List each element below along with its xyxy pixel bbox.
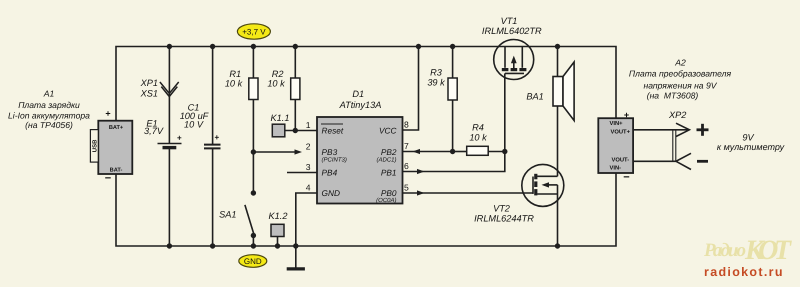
svg-text:PB4: PB4 [322,167,338,177]
wire: ground symbol drop [295,246,297,269]
node: pin2/R1 [251,149,256,154]
svg-text:10 V: 10 V [184,120,204,130]
svg-text:Радио: Радио [703,240,746,261]
wire: node down to pin 6 line [403,152,505,172]
svg-text:(ADC1): (ADC1) [376,156,396,163]
wire: bottom ground rail [116,173,616,246]
node: gnd/VT2 source [555,243,560,248]
speaker BA1 [526,62,574,121]
svg-text:PB3: PB3 [322,147,338,157]
transistor VT2 IRLML6244TR [474,164,564,223]
svg-text:3: 3 [306,162,311,172]
svg-text:D1: D1 [352,89,364,99]
svg-text:PB0: PB0 [381,188,397,198]
svg-text:напряжения на 9V: напряжения на 9V [643,80,717,90]
svg-text:+3,7 V: +3,7 V [242,28,266,37]
svg-text:GND: GND [322,188,340,198]
svg-text:4: 4 [306,183,311,193]
svg-text:XP2: XP2 [668,110,686,120]
svg-text:Плата зарядки: Плата зарядки [18,100,80,110]
block A1 charging board [90,109,132,185]
wire: IC pin 5 to VT2 gate [403,192,534,194]
svg-text:8: 8 [404,120,409,130]
svg-text:(PCINT3): (PCINT3) [322,156,347,163]
wire: R2 bottom to pin1 node [294,100,296,131]
svg-text:А1: А1 [43,89,55,99]
svg-text:+: + [624,110,629,120]
wire: IC pin 3 stub [287,172,317,174]
node: gnd/C1 [210,243,215,248]
resistor R3 [427,68,457,101]
node: gnd/E1 [167,243,172,248]
battery E1 [144,118,182,147]
svg-text:VCC: VCC [379,126,398,136]
svg-text:10 k: 10 k [225,79,243,89]
svg-text:(OC0A): (OC0A) [376,197,396,204]
watermark РадиоКОТ [703,235,793,279]
relay contact K1.1 [271,113,290,137]
relay contact K1.2 [269,211,288,237]
node: rail/R3 [450,44,455,49]
transistor VT1 IRLML6402TR [482,16,542,80]
node: rail/C1 [210,44,215,49]
wire: K1.1 to IC pin 1 [285,130,317,132]
wire: IC pin 7 to R3/R4 node [403,151,453,153]
svg-text:6: 6 [404,161,409,171]
node: rail/R2 [293,44,298,49]
node: R4/VT1 gate/pin6 [502,149,507,154]
node: rail/BA1 [555,44,560,49]
wire: C1 column upper [212,47,214,145]
wire: R1 node to IC pin 2 [253,151,296,153]
svg-text:7: 7 [404,141,409,151]
node: gnd/SA1 [251,243,256,248]
svg-text:GND: GND [244,257,262,266]
svg-text:IRLML6244TR: IRLML6244TR [474,214,534,224]
svg-text:10 k: 10 k [469,133,487,143]
wire: K1.2 to ground rail [277,237,279,247]
svg-text:SA1: SA1 [219,210,236,220]
resistor R4 [467,123,489,156]
svg-text:VOUT+: VOUT+ [611,129,631,136]
svg-text:BA1: BA1 [526,92,543,102]
svg-text:radiokot.ru: radiokot.ru [704,265,784,279]
wire: R4 right lead to node [488,151,505,153]
svg-text:K1.1: K1.1 [271,113,290,123]
arrow into pin 7 [413,149,421,154]
node: gnd/pin4 [293,243,298,248]
resistor R2 [267,69,300,99]
node: rail/E1 [167,44,172,49]
svg-text:VT1: VT1 [501,16,518,26]
svg-text:IRLML6402TR: IRLML6402TR [482,26,542,36]
node: rail/R1 [251,44,256,49]
svg-text:10 k: 10 k [267,79,285,89]
svg-text:к мультиметру: к мультиметру [717,142,785,152]
svg-text:K1.2: K1.2 [269,211,288,221]
svg-text:39 k: 39 k [427,78,445,88]
wire: VT2 source to ground rail [557,194,559,246]
svg-text:USB: USB [91,139,98,152]
svg-text:(на МТ3608): (на МТ3608) [647,91,699,101]
wire: R1 bottom to SA1 top contact [252,100,254,194]
svg-text:R3: R3 [430,68,443,78]
label A2 description [629,58,732,101]
svg-text:+: + [177,134,182,143]
capacitor C1 [180,103,221,149]
svg-text:2: 2 [306,142,311,152]
wire: node to VT1 gate [504,73,506,151]
minus output terminal [697,160,708,163]
wire: R1 column from rail to resistor [252,47,254,79]
svg-text:Reset: Reset [322,126,344,136]
svg-text:BAT-: BAT- [110,167,123,173]
wire: SA1 bottom contact to ground rail [252,236,254,247]
op-amp/IC D1 ATtiny13A [306,89,409,204]
wire: R3 column from rail [452,47,454,79]
plus output terminal [697,124,709,136]
block A2 boost converter [598,110,633,184]
wire: R4 left lead [453,151,467,153]
node: pin1/R2/K1.1 [293,128,298,133]
node +3,7V power label [237,24,270,39]
wire: BA1 bottom to VT2 drain [557,106,559,176]
wire: top +3.7V rail [116,47,616,122]
node GND power label [239,255,267,268]
svg-text:XP1: XP1 [140,78,158,88]
wire: IC pin 8 VCC to rail [403,47,419,131]
svg-text:VIN-: VIN- [610,165,622,171]
connector XP2 [633,123,691,169]
Reset overline [321,123,343,125]
wire: E1 column upper [168,47,170,144]
node: R3/R4/pin7 [450,149,455,154]
arrow out of pin 5 [417,190,425,195]
svg-text:−: − [105,173,111,185]
svg-text:VT2: VT2 [493,204,510,214]
wire: IC pin 4 GND to ground rail [296,193,317,246]
svg-text:+: + [215,133,220,142]
svg-text:5: 5 [404,183,409,193]
svg-text:VIN+: VIN+ [610,121,624,127]
signal arrows on IC pins [295,149,425,196]
connector XP1/XS1 [140,78,179,99]
svg-text:(на ТР4056): (на ТР4056) [25,120,73,130]
resistor R1 [225,69,258,99]
wire: rail to BA1 top [557,47,559,77]
arrow out of pin 6 [417,169,425,174]
svg-text:PB2: PB2 [381,147,397,157]
wire: R3 bottom to pin7 node [452,100,454,152]
svg-text:КОТ: КОТ [744,235,793,266]
svg-text:VOUT-: VOUT- [612,157,630,164]
wire: R2 column from rail to resistor [294,47,296,79]
svg-text:BAT+: BAT+ [109,125,124,131]
svg-text:3,7V: 3,7V [144,126,164,136]
svg-text:+: + [105,109,110,119]
svg-text:PB1: PB1 [381,167,397,177]
svg-text:А2: А2 [674,58,686,68]
svg-text:Плата преобразователя: Плата преобразователя [629,69,732,79]
node: gnd/K1.2 [275,243,280,248]
label A1 description [8,89,90,131]
svg-text:R4: R4 [472,123,484,133]
switch SA1 [219,190,256,238]
svg-text:ATtiny13A: ATtiny13A [339,100,382,110]
svg-text:XS1: XS1 [140,89,158,99]
node: rail/VCC [416,44,421,49]
wire: E1 column lower [168,148,170,247]
svg-text:1: 1 [306,120,311,130]
wire: C1 column lower [212,149,214,247]
svg-text:−: − [623,172,629,184]
ground [287,267,305,270]
arrow into pin 2 [295,149,303,154]
